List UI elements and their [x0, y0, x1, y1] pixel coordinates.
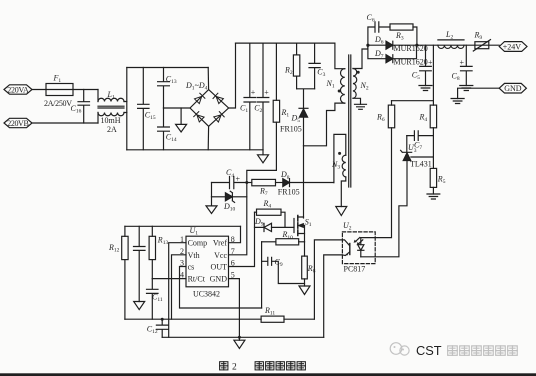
wire AC line A: [32, 89, 98, 91]
svg-text:C4: C4: [226, 168, 234, 179]
wire bottom ground rail: [162, 336, 324, 338]
capacitor C1 electrolytic: [240, 43, 256, 150]
svg-text:U2: U2: [343, 221, 352, 232]
svg-text:C12: C12: [147, 324, 158, 335]
ground hatched at GND terminal: [451, 99, 464, 104]
capacitor C12: [147, 318, 168, 338]
op-amp U1 UC3842 PWM controller: [180, 226, 235, 299]
svg-text:R1: R1: [281, 108, 290, 119]
wire primary negative rail: [127, 149, 263, 151]
wire C4 left leg: [211, 183, 213, 197]
svg-text:MUR1620: MUR1620: [394, 44, 428, 53]
resistor R7: [247, 179, 283, 197]
bridge rectifier D1~D4: [185, 81, 229, 126]
wire Vref rail: [125, 225, 241, 227]
svg-text:R12: R12: [108, 243, 120, 254]
capacitor C2 electrolytic: [254, 43, 269, 150]
wire feedback line right: [284, 318, 314, 320]
ground hollow triangle at bus caps: [258, 150, 269, 163]
svg-text:cs: cs: [188, 263, 195, 272]
svg-text:FR105: FR105: [278, 187, 300, 196]
svg-text:CST: CST: [416, 343, 442, 358]
resistor R8 sense: [302, 242, 316, 286]
svg-text:R13: R13: [157, 236, 169, 247]
wire filter top rail: [127, 67, 208, 69]
capacitor C10: [134, 226, 146, 301]
svg-text:C6: C6: [367, 13, 375, 24]
svg-text:6: 6: [231, 259, 235, 268]
svg-text:C8: C8: [452, 71, 460, 82]
svg-text:+: +: [251, 88, 256, 97]
svg-text:C1: C1: [240, 104, 248, 115]
svg-text:R9: R9: [474, 31, 483, 42]
wire opto emitter leg: [324, 255, 343, 337]
diode D6 MUR1620: [374, 35, 428, 53]
svg-text:FR105: FR105: [280, 125, 302, 134]
resistor R4 divider: [419, 105, 437, 157]
svg-text:GND: GND: [504, 84, 522, 93]
svg-text:220VB: 220VB: [7, 119, 29, 128]
svg-text:R4: R4: [419, 113, 428, 124]
shunt regulator U3 TL431: [401, 143, 434, 168]
wire clamp join: [297, 89, 315, 109]
svg-text:C3: C3: [317, 68, 325, 79]
node rail junction: [238, 336, 241, 339]
wire filter left vertical: [126, 68, 128, 150]
resistor R3: [390, 24, 417, 45]
capacitor C9: [262, 257, 305, 283]
wire C7 to ref: [406, 136, 408, 153]
svg-text:C13: C13: [166, 75, 177, 86]
svg-text:+: +: [264, 88, 269, 97]
resistor R11: [261, 306, 284, 323]
svg-text:Comp: Comp: [188, 239, 208, 248]
wire pin2 Vth leg: [172, 255, 187, 319]
capacitor C13: [158, 68, 177, 109]
watermark text: [416, 343, 517, 358]
wire Rt/Ct to pin4: [152, 278, 186, 280]
optocoupler U2 PC817: [342, 221, 375, 274]
diode D8 FR105: [278, 170, 300, 196]
wire secondary output rail: [368, 44, 499, 46]
svg-text:D6: D6: [374, 35, 384, 46]
svg-text:R5: R5: [437, 175, 446, 186]
wire pin5 GND leg: [229, 279, 240, 338]
svg-text:Vcc: Vcc: [214, 251, 227, 260]
wire rail to N1 top: [335, 43, 345, 69]
wire pin8 Vref riser: [229, 226, 241, 242]
capacitor C5 electrolytic: [412, 45, 433, 85]
capacitor C3: [309, 43, 326, 89]
wire D8 to N3: [290, 182, 334, 184]
svg-text:220VA: 220VA: [7, 85, 29, 94]
ground hatched at C5: [419, 86, 432, 91]
wire LED top to R6: [361, 128, 392, 238]
svg-text:D5: D5: [291, 114, 301, 125]
svg-text:UC3842: UC3842: [193, 290, 220, 299]
node GND output terminal: [499, 83, 526, 93]
svg-text:3: 3: [180, 259, 184, 268]
svg-text:C15: C15: [145, 111, 156, 122]
capacitor C11: [147, 279, 163, 320]
wire AC line B: [32, 122, 98, 124]
svg-text:N2: N2: [360, 81, 369, 92]
node Vcc junction: [245, 181, 248, 184]
svg-text:+: +: [236, 175, 241, 184]
transistor S1 MOSFET: [294, 216, 312, 236]
wire OUT to gate network: [229, 212, 255, 266]
capacitor C7: [407, 131, 434, 151]
svg-text:Vref: Vref: [213, 239, 228, 248]
wire cs node down: [261, 242, 263, 308]
svg-text:R7: R7: [259, 186, 268, 197]
node 220VA input terminal: [4, 85, 32, 95]
inductor L1 common-mode choke 10mH 2A: [98, 90, 127, 135]
svg-text:+24V: +24V: [503, 43, 522, 52]
ground hatched at C8: [460, 86, 473, 91]
svg-text:2A: 2A: [107, 125, 117, 134]
svg-text:R11: R11: [264, 306, 275, 317]
svg-text:Rt/Ct: Rt/Ct: [188, 275, 206, 284]
wire HV top rail: [236, 42, 335, 44]
ground hollow triangle at rail: [234, 337, 245, 348]
capacitor C16: [71, 90, 90, 124]
diode D7 MUR1620: [368, 45, 428, 66]
ground hollow triangle at D10: [206, 197, 217, 214]
wire bridge DC+ rise: [229, 43, 236, 108]
svg-text:TL431: TL431: [410, 159, 432, 168]
node secondary right junction: [415, 44, 418, 47]
svg-text:2A/250V: 2A/250V: [44, 99, 72, 108]
node secondary left junction: [366, 44, 369, 47]
wire GND stub: [458, 88, 500, 98]
svg-text:D7: D7: [374, 49, 384, 60]
svg-text:F1: F1: [53, 74, 62, 85]
wire Vcc node to pin7: [229, 183, 247, 255]
resistor R12: [108, 226, 128, 319]
svg-text:N3: N3: [331, 160, 340, 171]
ground hatched at N2: [355, 104, 367, 109]
svg-text:+: +: [460, 58, 465, 67]
caption figure title: [220, 362, 306, 373]
svg-text:C5: C5: [412, 70, 420, 81]
resistor R9 output: [473, 31, 490, 52]
svg-text:10mH: 10mH: [101, 116, 121, 125]
ground hatched at R5: [427, 194, 440, 199]
svg-text:R2: R2: [284, 66, 293, 77]
svg-text:GND: GND: [210, 275, 228, 284]
wire source to sense node: [304, 234, 306, 242]
resistor R13: [149, 226, 168, 278]
wire opto collector leg: [314, 240, 342, 319]
wire bridge bottom to negative rail: [207, 126, 209, 150]
wire divider top tie: [392, 45, 434, 105]
svg-text:S1: S1: [305, 217, 312, 228]
wire N1 bottom staircase: [304, 103, 345, 146]
capacitor C8 electrolytic: [452, 45, 473, 85]
svg-text:N1: N1: [326, 79, 335, 90]
wire LED bottom to TL431 anode: [361, 161, 407, 257]
resistor R1: [273, 43, 289, 170]
capacitor C15: [138, 68, 156, 150]
resistor R4 gate: [255, 199, 286, 228]
zener D10: [212, 191, 247, 212]
svg-text:C14: C14: [166, 133, 177, 144]
svg-text:PC817: PC817: [344, 265, 366, 274]
svg-text:+: +: [428, 58, 433, 67]
svg-text:7: 7: [231, 247, 235, 256]
capacitor C14: [158, 108, 177, 150]
capacitor C4 electrolytic (Vcc): [212, 168, 247, 189]
transformer primary N1: [326, 69, 345, 103]
wire feedback line left: [125, 318, 261, 320]
svg-text:R4: R4: [263, 199, 272, 210]
ground hollow triangle at C10: [134, 302, 145, 310]
node 220VB input terminal: [4, 118, 32, 128]
resistor R5: [430, 157, 445, 194]
svg-text:R3: R3: [395, 31, 404, 42]
wire bridge top to rail: [207, 68, 209, 90]
svg-text:D9: D9: [254, 217, 264, 228]
svg-text:C2: C2: [254, 104, 262, 115]
wire pin1 Comp leg: [169, 243, 186, 338]
fuse F1 2A/250V: [44, 74, 73, 109]
transformer core: [349, 55, 351, 187]
svg-text:R6: R6: [376, 113, 385, 124]
wire drain column: [303, 146, 305, 218]
ground hollow triangle at filter: [176, 108, 187, 132]
resistor R2: [284, 43, 300, 89]
wire cs line to pin3: [180, 267, 262, 309]
resistor R6: [376, 101, 395, 128]
svg-text:U1: U1: [190, 226, 199, 237]
inductor L2: [438, 30, 464, 48]
svg-text:MUR1620: MUR1620: [394, 58, 428, 67]
node +24V output terminal: [499, 42, 527, 52]
svg-text:L2: L2: [445, 30, 453, 41]
svg-text:OUT: OUT: [211, 263, 228, 272]
watermark logo: [390, 343, 409, 355]
ground hollow triangle at R8: [299, 286, 310, 295]
resistor R10: [262, 230, 305, 245]
svg-text:2: 2: [232, 363, 237, 373]
wire bridge AC mid line: [164, 107, 191, 109]
diode D9: [254, 217, 294, 232]
transformer secondary N2: [353, 45, 369, 104]
capacitor C6: [367, 13, 391, 45]
svg-text:D1~D4: D1~D4: [185, 81, 208, 92]
svg-text:D10: D10: [223, 202, 236, 213]
transformer aux winding N3: [331, 134, 346, 206]
wire R1 to Vcc node: [247, 170, 277, 182]
bottom scan bar: [0, 373, 536, 376]
svg-text:Vth: Vth: [188, 251, 200, 260]
ground hollow triangle at N3: [336, 207, 347, 216]
diode D5 FR105: [280, 108, 308, 146]
